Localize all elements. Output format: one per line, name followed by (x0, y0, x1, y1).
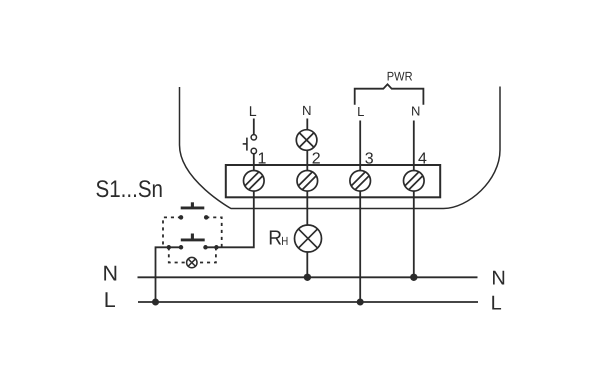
svg-text:R: R (268, 228, 282, 250)
svg-text:N: N (491, 267, 505, 289)
svg-text:L: L (491, 293, 502, 315)
svg-text:L: L (104, 288, 116, 312)
svg-text:PWR: PWR (387, 70, 413, 84)
svg-text:N: N (302, 103, 312, 118)
svg-text:3: 3 (365, 151, 374, 168)
svg-text:S1...Sn: S1...Sn (96, 176, 164, 203)
svg-text:1: 1 (258, 151, 267, 168)
svg-text:2: 2 (312, 151, 321, 168)
svg-text:L: L (249, 104, 257, 120)
svg-text:4: 4 (418, 151, 427, 168)
svg-text:H: H (281, 234, 288, 248)
svg-text:N: N (103, 261, 119, 285)
svg-text:L: L (357, 104, 364, 119)
svg-text:N: N (411, 103, 420, 118)
